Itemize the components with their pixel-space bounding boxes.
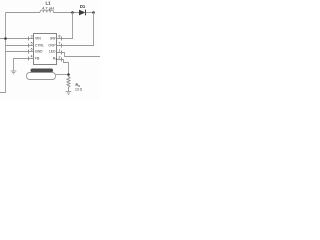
svg-text:13 Ω: 13 Ω: [75, 88, 83, 92]
wire LED module to resistor node: [56, 74, 69, 76]
svg-text:SW: SW: [50, 36, 56, 40]
node A junction dot VIN rail: [4, 37, 7, 40]
wire top rail right segment: [86, 12, 94, 14]
pin ticks right: [61, 37, 63, 62]
svg-text:3: 3: [31, 35, 33, 39]
svg-text:6: 6: [31, 48, 33, 52]
svg-text:FB: FB: [35, 56, 40, 60]
svg-text:OVP: OVP: [48, 43, 56, 47]
pin ticks left: [28, 37, 30, 61]
wire CTRL pin 5: [6, 45, 34, 47]
svg-text:CTRL: CTRL: [35, 43, 44, 47]
svg-text:1: 1: [59, 49, 61, 53]
wire OVP feedback from cathode node down to pin 7: [57, 13, 94, 46]
ground left: [11, 71, 17, 74]
svg-text:8: 8: [59, 35, 61, 39]
node C junction dot diode cathode: [92, 11, 95, 14]
LED module body box: [27, 73, 56, 80]
wire left rail vertical down to bottom left exit: [0, 13, 6, 93]
inductor L1: [40, 10, 54, 12]
LED module dark bar: [31, 69, 54, 73]
svg-text:4.7 µH: 4.7 µH: [42, 5, 54, 10]
wire LED pin 1 to right edge: [57, 53, 101, 57]
svg-text:4: 4: [31, 55, 33, 59]
wire SW pin 8 up to rail node: [57, 13, 73, 39]
ground right: [66, 92, 72, 95]
svg-text:7: 7: [59, 42, 61, 46]
svg-text:D1: D1: [80, 4, 86, 9]
svg-text:5: 5: [31, 42, 33, 46]
op-amp U1 driver IC box: [34, 34, 57, 65]
diode D1: [79, 4, 86, 16]
wire VIN input from left edge to pin 3: [0, 38, 34, 40]
svg-text:2: 2: [59, 56, 61, 60]
wire RS pin 2 down to resistor: [57, 60, 69, 75]
node D junction dot resistor top: [67, 73, 70, 76]
svg-text:GND: GND: [35, 50, 43, 54]
svg-text:VIN: VIN: [35, 36, 41, 40]
node B junction dot SW rail: [71, 11, 74, 14]
wire FB pin 4 to ground: [14, 59, 34, 71]
svg-text:LED: LED: [49, 50, 56, 54]
wire GND pin 6 to left rail: [6, 51, 34, 53]
resistor RS: [67, 76, 70, 92]
wire top rail left segment: [6, 12, 41, 14]
wire top rail mid segment: [54, 12, 79, 14]
